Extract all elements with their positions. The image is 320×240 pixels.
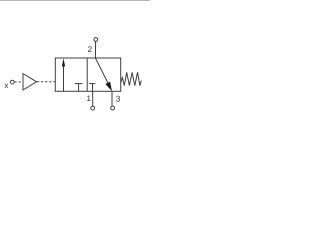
svg-text:2: 2 [87, 44, 92, 54]
svg-text:x: x [4, 81, 8, 90]
svg-text:1: 1 [86, 94, 91, 103]
svg-text:3: 3 [116, 93, 121, 103]
